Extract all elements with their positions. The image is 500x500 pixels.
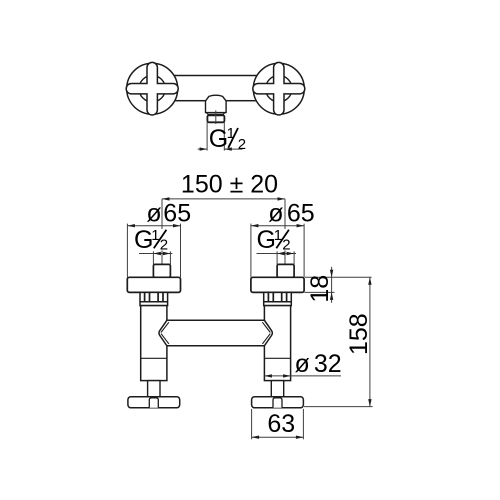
wire body bar — [152, 76, 279, 101]
left column body — [141, 306, 167, 381]
left foot notch — [149, 398, 158, 408]
dim diameter 65 left — [126, 224, 128, 278]
svg-text:32: 32 — [314, 350, 342, 378]
svg-text:ø: ø — [295, 350, 310, 378]
left stem — [148, 381, 160, 397]
dim 150 +/- 20 — [162, 198, 285, 200]
connecting bar — [159, 320, 272, 346]
left foot handle — [128, 397, 180, 408]
svg-text:ø: ø — [268, 200, 283, 228]
outlet centerline — [215, 110, 217, 124]
centerline right union — [284, 199, 286, 229]
G1/2 label right (front) — [257, 226, 291, 254]
dim 63 — [251, 409, 253, 439]
left wall flange — [127, 277, 180, 292]
centerline left union — [161, 199, 163, 229]
svg-text:65: 65 — [163, 200, 191, 228]
svg-text:63: 63 — [267, 410, 295, 438]
outlet collar — [206, 113, 224, 115]
right foot notch — [273, 398, 282, 408]
right column joint line — [264, 357, 290, 359]
right handle outer circle — [253, 63, 304, 114]
outlet dome — [206, 95, 227, 112]
right wall flange — [251, 277, 304, 292]
right castellated nut — [264, 292, 292, 305]
bar cone tangent lines right — [262, 322, 270, 332]
dim G1/2 right (front) — [276, 251, 278, 264]
right cross handle — [253, 62, 305, 115]
left castellated nut — [140, 292, 168, 305]
svg-text:18: 18 — [306, 275, 334, 303]
svg-text:1: 1 — [227, 125, 235, 142]
outlet threaded nut — [207, 115, 224, 122]
svg-text:2: 2 — [160, 237, 168, 254]
left column joint line — [141, 357, 167, 359]
dim diameter 65 right — [250, 224, 252, 278]
right handle inner circle — [266, 76, 292, 102]
G1/2 label left (front) — [134, 226, 168, 254]
svg-text:ø: ø — [146, 200, 161, 228]
G1/2 label (top view) — [209, 125, 246, 153]
right inlet nipple — [277, 264, 294, 277]
dim 158 — [369, 277, 371, 406]
bar cone tangent lines left — [161, 322, 169, 332]
dim 18 — [305, 276, 372, 278]
right stem — [271, 381, 283, 397]
svg-text:150 ± 20: 150 ± 20 — [181, 171, 278, 199]
svg-text:G: G — [209, 125, 228, 153]
svg-text:65: 65 — [287, 200, 315, 228]
left inlet nipple — [153, 264, 170, 277]
left handle outer circle — [127, 63, 178, 114]
left cross handle — [126, 62, 178, 115]
dim diameter 32 — [264, 375, 341, 377]
right foot handle — [252, 397, 304, 408]
right column body — [264, 306, 290, 381]
left handle inner circle — [139, 76, 165, 102]
dim G1/2 left (front) — [152, 251, 154, 264]
svg-text:2: 2 — [282, 237, 290, 254]
svg-text:2: 2 — [238, 136, 246, 153]
G1/2 dimension line (top view) — [198, 148, 208, 150]
svg-text:158: 158 — [345, 313, 373, 355]
G1/2 extension lines (top view) — [206, 122, 208, 150]
